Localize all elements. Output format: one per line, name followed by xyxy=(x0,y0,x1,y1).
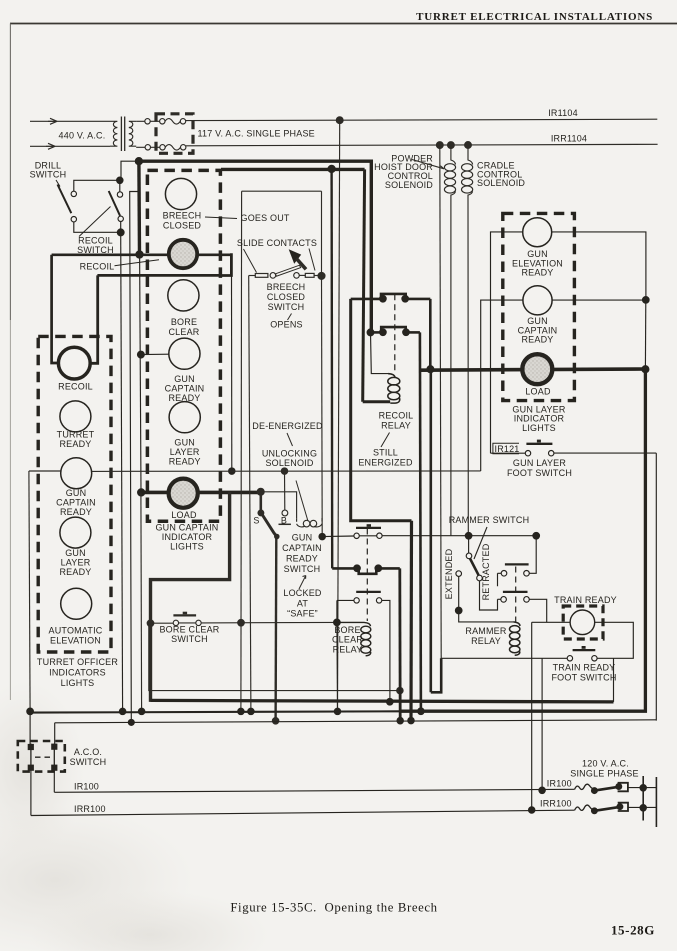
recoil relay contact 1 (top) xyxy=(351,294,431,302)
node main junction on thick feed bus xyxy=(135,158,142,165)
label gun captain ready xyxy=(165,374,205,403)
svg-text:“SAFE”: “SAFE” xyxy=(287,609,318,619)
wire upper contact right from feed node xyxy=(529,536,536,574)
wire node to lamp xyxy=(141,353,169,355)
svg-text:BREECH: BREECH xyxy=(267,282,306,292)
wires transformer to fuse block xyxy=(136,121,145,147)
label still energized xyxy=(358,447,413,467)
solenoid coil powder hoist door xyxy=(444,145,455,536)
svg-text:IRR100: IRR100 xyxy=(540,799,572,809)
terminal extended xyxy=(456,571,462,577)
lamp load (mid, energized) xyxy=(169,479,198,508)
svg-text:RELAY: RELAY xyxy=(381,421,411,431)
wire lower contact right to train ready lamp xyxy=(529,599,570,622)
lamp gun captain ready (turret officer) xyxy=(61,458,92,489)
node bottom tie of switches xyxy=(117,229,124,236)
svg-text:120 V. A.C.: 120 V. A.C. xyxy=(582,758,629,768)
wire train foot switch left feed xyxy=(441,657,567,659)
svg-text:GUN LAYER: GUN LAYER xyxy=(513,458,566,468)
bus B1 thick bottom xyxy=(151,700,614,702)
label gun captain ready switch with leader xyxy=(282,533,322,589)
slide contact bar 1 with porch xyxy=(249,274,268,712)
wire gun elevation ready right xyxy=(552,232,646,300)
svg-text:LOAD: LOAD xyxy=(525,386,551,396)
svg-text:TRAIN READY: TRAIN READY xyxy=(554,595,617,605)
svg-text:RAMMER SWITCH: RAMMER SWITCH xyxy=(449,515,530,525)
dashed actuator bore clear relay xyxy=(366,529,368,622)
wire return line above B1 xyxy=(149,623,400,690)
gun layer foot switch xyxy=(491,440,657,456)
bore clear relay main contact (inverted staple) xyxy=(332,565,400,574)
svg-text:IR1104: IR1104 xyxy=(548,108,578,118)
wire long drop from IR1104 down left-middle column xyxy=(338,120,340,711)
svg-text:READY: READY xyxy=(60,507,92,517)
svg-text:BREECH: BREECH xyxy=(163,211,202,221)
label ACO switch xyxy=(70,747,107,767)
bus B3 thin xyxy=(55,720,657,723)
wire coil bottom to left riser xyxy=(363,400,391,403)
node on B1 xyxy=(387,699,394,706)
svg-text:LAYER: LAYER xyxy=(61,558,91,568)
transformer T primary winding xyxy=(110,121,117,146)
wire right column down to load bus xyxy=(644,300,646,369)
svg-text:GUN: GUN xyxy=(66,488,87,498)
svg-text:AT: AT xyxy=(297,598,309,608)
svg-text:RECOIL: RECOIL xyxy=(80,261,115,271)
train ready foot switch xyxy=(567,646,597,661)
svg-text:READY: READY xyxy=(286,553,318,563)
wire node down to bottom bus xyxy=(336,622,339,711)
solenoid coil cradle control xyxy=(462,145,473,536)
wire load bus right section xyxy=(420,369,646,370)
label powder hoist door control solenoid with leader xyxy=(374,153,444,189)
slide contact pivot circle xyxy=(270,273,276,279)
wire heavy right leg to lower bus and stub xyxy=(220,253,232,275)
svg-text:READY: READY xyxy=(59,439,91,449)
wire gun captain ready right xyxy=(552,299,646,301)
svg-text:LOAD: LOAD xyxy=(171,510,197,520)
node IR100 right xyxy=(640,785,646,791)
label locked at safe xyxy=(283,588,322,618)
label gun captain ready xyxy=(56,488,96,517)
lamp load (right box, energized) xyxy=(522,354,552,384)
svg-text:440 V. A.C.: 440 V. A.C. xyxy=(59,131,106,141)
node bore clear switch drop xyxy=(238,620,245,627)
label recoil switch with leader xyxy=(77,207,114,256)
breech closed switch arrow (opens) xyxy=(289,249,306,269)
svg-text:RECOIL: RECOIL xyxy=(379,411,414,421)
svg-text:GUN: GUN xyxy=(174,374,195,384)
wire gun captain ready (right box) left xyxy=(481,300,523,471)
svg-text:SWITCH: SWITCH xyxy=(268,302,305,312)
node IRR100 right xyxy=(640,805,646,811)
wire IRR100 line xyxy=(31,810,575,815)
slide contact circle 2 xyxy=(294,273,300,279)
wire lower contact left stub xyxy=(498,598,501,600)
node IR100 feed xyxy=(539,787,545,793)
svg-text:UNLOCKING: UNLOCKING xyxy=(262,448,317,458)
svg-text:ELEVATION: ELEVATION xyxy=(50,635,101,645)
svg-text:CAPTAIN: CAPTAIN xyxy=(56,497,96,507)
recoil switch xyxy=(109,191,124,222)
bore clear switch xyxy=(151,612,337,626)
label cradle control solenoid xyxy=(477,161,525,189)
node switch top tie xyxy=(117,177,123,183)
wire recoil switch line down to bottom bus xyxy=(121,232,123,711)
wire tie to drill switch top xyxy=(74,180,120,191)
wire 120V feeds down xyxy=(532,622,542,810)
node right column xyxy=(643,297,650,304)
node load bus left xyxy=(138,489,145,496)
label gun captain ready xyxy=(518,316,558,344)
lamp breech closed xyxy=(165,178,196,209)
wire gun elevation ready left to foot switch xyxy=(491,232,523,453)
rammer relay coil xyxy=(510,622,521,655)
label gun elevation ready xyxy=(512,249,563,277)
lamp recoil (energized) xyxy=(169,240,197,268)
wire contact2 right drop through load bus down to B2 xyxy=(420,332,421,711)
node IRR1104 to powder hoist coil xyxy=(448,142,455,149)
svg-text:TURRET OFFICER: TURRET OFFICER xyxy=(37,657,118,667)
node load bus right corner xyxy=(642,366,649,373)
svg-text:READY: READY xyxy=(521,268,553,278)
wire thick bus lower y169.5 xyxy=(221,168,365,171)
rammer contact lower xyxy=(501,592,529,602)
label automatic elevation xyxy=(49,626,103,646)
label train ready foot switch xyxy=(551,662,616,682)
wire heavy right column to bottom bus xyxy=(400,369,645,711)
svg-text:15-28G: 15-28G xyxy=(611,923,655,938)
node S junction on load feed xyxy=(257,488,264,495)
wire junction down to gun captain ready switch / rammer feed xyxy=(321,276,324,537)
wire thin from S node to unlocking solenoid left xyxy=(261,492,297,519)
label slide contacts with leaders xyxy=(237,238,317,273)
svg-text:AUTOMATIC: AUTOMATIC xyxy=(49,626,103,636)
svg-text:RELAY: RELAY xyxy=(333,644,363,654)
label IR121 with bracket xyxy=(493,443,520,454)
svg-text:IR121: IR121 xyxy=(495,444,520,454)
label bore clear relay xyxy=(332,625,363,655)
lamp gun layer ready (turret officer) xyxy=(60,517,91,548)
svg-text:SWITCH: SWITCH xyxy=(284,564,321,574)
label de-energized with leader xyxy=(252,421,323,446)
svg-text:ENERGIZED: ENERGIZED xyxy=(358,457,413,467)
svg-text:S: S xyxy=(253,516,259,526)
lamp gun layer ready (mid) xyxy=(169,402,200,433)
wire heavy mid bus y275 xyxy=(97,274,219,277)
wire straight drop from IRR1104 to foot-switch feed xyxy=(440,145,441,658)
wire IR1104 line xyxy=(186,119,658,120)
bore clear relay coil xyxy=(340,622,371,655)
switch blade locked at safe xyxy=(262,514,277,537)
train ready dashed box xyxy=(563,606,603,639)
bore clear relay aux contact 2 xyxy=(337,592,390,702)
svg-text:DE-ENERGIZED: DE-ENERGIZED xyxy=(252,421,323,431)
node IRR1104 to straight drop wire xyxy=(436,142,443,149)
svg-text:CAPTAIN: CAPTAIN xyxy=(282,543,322,553)
rammer contact upper xyxy=(501,564,529,576)
wire contact1 right drop to load bus xyxy=(429,299,432,369)
label rammer relay xyxy=(465,626,506,646)
wire extended terminal down xyxy=(458,576,460,610)
label recoil (wire label) with leader xyxy=(80,260,159,272)
svg-text:LAYER: LAYER xyxy=(170,447,200,457)
node on recoil bus xyxy=(136,251,143,258)
wire inner box right edge down to slide contact node xyxy=(321,191,323,276)
wire long horizontal y471 (left of lamp) xyxy=(29,470,61,472)
svg-text:BORE CLEAR: BORE CLEAR xyxy=(159,624,219,634)
recoil relay contact 2 xyxy=(371,327,420,335)
wire bottom tie xyxy=(74,222,121,233)
transformer core xyxy=(121,117,124,152)
label drill switch with leader xyxy=(30,160,67,186)
wire bore clear relay contact right drop to B3 xyxy=(398,568,401,720)
svg-text:STILL: STILL xyxy=(373,447,398,457)
switch IR100 xyxy=(575,783,657,794)
lamp recoil (turret officer) xyxy=(58,347,90,379)
wire foot switch right down to B3 xyxy=(655,453,657,720)
slide contact bar 2 xyxy=(299,273,321,277)
wire heavy left drop to turret officer recoil lamp xyxy=(52,255,59,363)
wire rammer feed from gun captain switch junction xyxy=(319,533,325,539)
lamp automatic elevation xyxy=(61,588,92,619)
node load bus / contact1 drop xyxy=(427,366,434,373)
wire retracted terminal to lower contact left xyxy=(480,581,498,610)
svg-text:IRR1104: IRR1104 xyxy=(551,133,587,143)
wire thick from foot switch feed down across to load bus riser xyxy=(431,369,441,692)
svg-text:TRAIN READY: TRAIN READY xyxy=(553,662,616,672)
wire node up to aux contact 2 left xyxy=(336,600,338,622)
label breech closed xyxy=(163,211,202,231)
wire blade throw down to B3 xyxy=(274,537,277,721)
svg-text:SOLENOID: SOLENOID xyxy=(385,180,433,190)
wire IR100 line xyxy=(54,789,574,792)
page header rule xyxy=(10,24,677,701)
node bore clear switch left on heavy leg xyxy=(147,620,154,627)
svg-text:RETRACTED: RETRACTED xyxy=(481,543,491,600)
node IRR100 feed xyxy=(529,807,535,813)
lamp turret ready xyxy=(60,401,91,432)
svg-text:RAMMER: RAMMER xyxy=(465,626,506,636)
turret officer dashed box xyxy=(38,336,111,652)
svg-text:LOCKED: LOCKED xyxy=(283,588,322,598)
switch S terminal xyxy=(259,492,262,512)
svg-text:CLOSED: CLOSED xyxy=(163,221,202,231)
wire extended node to rammer relay coil xyxy=(459,611,514,622)
bore clear relay aux contact 1 xyxy=(354,524,382,538)
node on IR1104 feeding long drop xyxy=(336,117,343,124)
B contact bar xyxy=(279,523,291,525)
gun captain indicator lights dashed box xyxy=(147,170,220,521)
svg-text:READY: READY xyxy=(521,335,553,345)
node B2 left end xyxy=(27,708,34,715)
wire thick feed bus upper xyxy=(139,161,371,332)
wire left end down to bottom bus and ACO xyxy=(29,471,30,711)
lamp gun captain ready (mid) xyxy=(169,338,200,369)
svg-text:FOOT SWITCH: FOOT SWITCH xyxy=(551,672,616,682)
terminal B xyxy=(282,510,288,516)
svg-text:EXTENDED: EXTENDED xyxy=(444,548,454,599)
wire thin continuation down to long wire xyxy=(231,276,233,472)
svg-text:FOOT SWITCH: FOOT SWITCH xyxy=(507,468,572,478)
ACO switch assembly xyxy=(18,711,65,815)
svg-text:TURRET: TURRET xyxy=(57,430,95,440)
fuse bottom: terminals and fuse wave xyxy=(145,145,186,151)
wire mid feed continues to bottom bus xyxy=(140,492,143,711)
svg-text:GOES OUT: GOES OUT xyxy=(241,213,290,223)
transformer secondary winding xyxy=(129,121,136,146)
wire mid feed vertical through lamp nodes xyxy=(140,255,141,493)
wire heavy drop to left recoil lamp right side xyxy=(91,275,98,363)
dashed actuator rammer relay xyxy=(515,567,517,624)
power stub bars right xyxy=(643,776,656,827)
svg-text:SINGLE PHASE: SINGLE PHASE xyxy=(570,769,638,779)
lamp gun elevation ready xyxy=(523,218,552,247)
wire contact2 node down to coil top xyxy=(371,332,389,373)
svg-text:BORE: BORE xyxy=(334,625,360,635)
bus B2 xyxy=(30,711,400,712)
nodes on B3 xyxy=(128,719,134,725)
wire drop from node down to bore clear relay contact xyxy=(330,169,333,569)
svg-text:GUN CAPTAIN: GUN CAPTAIN xyxy=(155,523,218,533)
label bore clear switch xyxy=(159,624,219,644)
label gun captain indicator lights xyxy=(155,523,218,552)
label gun layer indicator lights xyxy=(512,404,565,432)
node slide contacts junction xyxy=(318,272,325,279)
wire thick left leg of still-energized box down and across xyxy=(351,299,412,521)
wire thick drop from lower bus corner to recoil relay coil bottom xyxy=(363,169,365,401)
svg-text:TURRET ELECTRICAL INSTALLATION: TURRET ELECTRICAL INSTALLATIONS xyxy=(416,11,653,23)
wire heavy recoil bus xyxy=(52,253,232,256)
node IRR1104 to cradle coil xyxy=(465,142,472,149)
svg-text:A.C.O.: A.C.O. xyxy=(74,747,102,757)
wire heavy: load bus right end drop to B1 bus xyxy=(151,492,230,702)
node gun captain ready feed xyxy=(138,351,145,358)
node bore clear relay coil feed xyxy=(334,619,341,626)
gun layer indicator lights dashed box xyxy=(503,213,575,400)
lamp bore clear xyxy=(168,280,199,311)
svg-text:INDICATORS: INDICATORS xyxy=(49,667,106,677)
label turret ready xyxy=(57,430,95,450)
svg-text:LIGHTS: LIGHTS xyxy=(170,542,204,552)
wire thick vertical from feed junction to recoil bus xyxy=(137,161,141,255)
svg-text:CAPTAIN: CAPTAIN xyxy=(165,384,205,394)
label gun layer ready xyxy=(169,437,201,466)
svg-text:LIGHTS: LIGHTS xyxy=(522,423,556,433)
lamp gun captain ready (right box) xyxy=(523,286,552,315)
lamp train ready xyxy=(570,610,595,635)
wire long horizontal y471 (right of lamp) xyxy=(92,470,481,473)
svg-text:RELAY: RELAY xyxy=(471,636,501,646)
leader to goes out xyxy=(205,217,237,219)
node extended wire xyxy=(455,607,462,614)
node B-contact feed xyxy=(281,468,287,474)
wire tie down to recoil switch top xyxy=(119,180,121,192)
svg-text:OPENS: OPENS xyxy=(270,320,303,330)
label recoil relay with leader xyxy=(379,411,414,447)
svg-text:IRR100: IRR100 xyxy=(74,804,106,814)
svg-text:SWITCH: SWITCH xyxy=(70,757,107,767)
svg-text:READY: READY xyxy=(59,567,91,577)
label unlocking solenoid with leader xyxy=(262,448,317,520)
svg-text:117 V. A.C. SINGLE PHASE: 117 V. A.C. SINGLE PHASE xyxy=(198,128,315,138)
svg-text:CLOSED: CLOSED xyxy=(267,292,306,302)
svg-text:SWITCH: SWITCH xyxy=(171,634,208,644)
unlocking solenoid cups and coil xyxy=(297,518,322,527)
wire right leg down to B3 bus xyxy=(409,521,413,721)
wire upper contact left to lower contact left xyxy=(498,573,502,586)
node bus to bore-clear-relay drop xyxy=(328,165,335,172)
svg-text:SWITCH: SWITCH xyxy=(30,169,67,179)
svg-text:GUN: GUN xyxy=(174,437,195,447)
breech closed switch blade xyxy=(276,265,301,276)
label bore clear xyxy=(168,317,199,337)
rammer switch blade and pivot xyxy=(466,536,478,576)
svg-text:LIGHTS: LIGHTS xyxy=(61,678,95,688)
dashed actuator link xyxy=(394,294,396,372)
node return line to relay leg xyxy=(397,687,403,693)
svg-text:GUN: GUN xyxy=(292,533,313,543)
label rammer switch with leader xyxy=(449,515,530,559)
svg-text:IR100: IR100 xyxy=(547,778,572,788)
label gun layer ready xyxy=(59,548,91,577)
svg-text:GUN: GUN xyxy=(65,548,86,558)
wire feed to drill/recoil switches xyxy=(121,161,139,180)
inner thin box top xyxy=(242,190,322,192)
wire node down to B terminal xyxy=(284,471,286,510)
svg-text:SLIDE CONTACTS: SLIDE CONTACTS xyxy=(237,238,317,248)
node rammer feed to blade xyxy=(465,532,472,539)
nodes on B2 xyxy=(119,708,125,714)
wire IRR1104 line xyxy=(186,144,658,146)
node rammer feed to upper contact xyxy=(533,532,540,539)
wire B1 right end up to train loop xyxy=(613,658,615,702)
wire long thin line from heavy riser down to bottom bus xyxy=(130,192,140,721)
svg-text:SOLENOID: SOLENOID xyxy=(265,458,313,468)
svg-text:BORE: BORE xyxy=(171,317,197,327)
wire heavy load bus (middle) xyxy=(141,491,260,495)
wire train ready right loop to foot switch xyxy=(595,622,634,658)
svg-text:CLEAR: CLEAR xyxy=(168,327,199,337)
label 120 V AC single phase xyxy=(570,758,638,778)
wire 440V top line with arrow xyxy=(30,118,110,124)
svg-text:READY: READY xyxy=(169,457,201,467)
recoil relay coil xyxy=(388,374,400,404)
svg-text:RECOIL: RECOIL xyxy=(58,381,93,391)
node recoil relay contact2 left xyxy=(367,329,374,336)
switch IRR100 xyxy=(575,803,657,814)
svg-text:INDICATOR: INDICATOR xyxy=(162,532,213,542)
label gun layer foot switch xyxy=(507,458,572,478)
node on long wire xyxy=(229,468,235,474)
label turret officer indicators lights xyxy=(37,657,118,688)
svg-text:CLEAR: CLEAR xyxy=(332,635,363,645)
wire 440V bottom line with arrow xyxy=(30,143,110,149)
terminal retracted xyxy=(477,575,483,581)
svg-text:SOLENOID: SOLENOID xyxy=(477,178,525,188)
wire inner box left edge down to bottom bus xyxy=(240,191,243,711)
fuse top: terminals and fuse wave xyxy=(145,119,186,125)
fuse block dashed box xyxy=(156,114,193,154)
label breech closed switch xyxy=(267,282,306,329)
drill switch xyxy=(58,185,77,222)
svg-text:IR100: IR100 xyxy=(74,782,99,792)
svg-text:Figure 15-35C. Opening the Br: Figure 15-35C. Opening the Breech xyxy=(230,901,437,915)
